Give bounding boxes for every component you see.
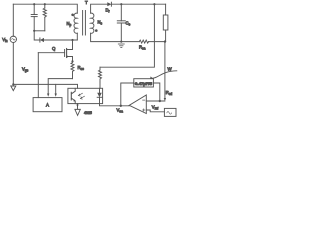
wire secondary bottom	[91, 33, 122, 41]
node output cap	[120, 3, 122, 5]
gate bar	[64, 50, 66, 57]
resistor Rsa	[121, 41, 139, 43]
wire load bottom	[165, 30, 167, 42]
resistor Rse sense	[71, 61, 74, 78]
node comp tap	[159, 100, 161, 102]
ground input return	[11, 86, 16, 91]
wire sense to controller	[48, 79, 72, 94]
capacitor Co	[120, 4, 122, 21]
svg-text:Vgs: Vgs	[22, 67, 29, 73]
opto LED	[99, 88, 101, 93]
ground secondary earth	[118, 43, 124, 45]
node snubber cap top	[33, 3, 35, 5]
transformer secondary Ns	[91, 13, 94, 33]
node snubber bottom	[33, 30, 35, 32]
wire secondary top	[91, 4, 108, 13]
light arrows	[78, 93, 82, 96]
resistor RL load box	[163, 15, 168, 30]
wire diode to drain node	[44, 39, 77, 41]
phototransistor	[70, 92, 72, 100]
wire left rail upper	[12, 4, 14, 36]
wire top primary rail	[13, 4, 77, 13]
source Vin	[10, 36, 16, 42]
svg-text:Dr: Dr	[106, 8, 111, 14]
wire output rail R1	[100, 4, 154, 67]
node output rail top	[153, 3, 155, 5]
node snubber res top	[44, 3, 46, 5]
node primary dot	[71, 14, 74, 17]
compensation box Z1	[134, 79, 154, 87]
wire LED cathode to Vea	[100, 104, 130, 106]
channel bar	[66, 49, 68, 58]
svg-text:Np: Np	[67, 21, 72, 27]
svg-text:Rse: Rse	[78, 65, 85, 71]
source arrow	[67, 55, 68, 57]
ground opto emitter	[75, 109, 80, 115]
node input return junction	[12, 83, 14, 85]
diode Dr	[107, 2, 111, 6]
wire comp to Vea riser	[121, 83, 134, 106]
source lead	[67, 57, 73, 62]
wire opto emitter ground	[77, 104, 79, 109]
wire snubber to diode	[34, 31, 40, 40]
optocoupler U2 box	[68, 88, 103, 103]
wire gate lead	[38, 52, 64, 54]
svg-text:A: A	[46, 103, 49, 108]
op-amp plus	[143, 109, 145, 111]
node secondary dot	[95, 29, 98, 32]
wire comp to inverting	[153, 83, 159, 101]
svg-text:Rsa: Rsa	[139, 45, 146, 51]
wire output top	[111, 3, 165, 5]
svg-text:Q: Q	[52, 46, 56, 51]
svg-text:4N25: 4N25	[84, 111, 92, 115]
wire primary common	[13, 84, 77, 88]
wiper W curve	[151, 71, 177, 79]
op-amp U1	[129, 95, 146, 114]
svg-text:Rsd: Rsd	[166, 90, 173, 96]
diode D snubber	[39, 38, 41, 42]
node secondary ground	[120, 41, 122, 43]
node Vea	[120, 105, 122, 107]
node load bottom	[164, 40, 166, 42]
wire left rail lower	[12, 43, 14, 85]
wire snubber bottom tie	[34, 30, 45, 32]
resistor Rb led bias	[99, 67, 101, 70]
op-amp minus	[143, 99, 145, 101]
svg-text:Co: Co	[126, 21, 131, 27]
controller box A	[33, 98, 62, 112]
svg-text:Vin: Vin	[2, 37, 8, 43]
arrow sense in	[47, 94, 49, 97]
wire gate drive vertical	[37, 53, 39, 98]
node source	[71, 60, 73, 62]
reference source box	[164, 108, 176, 116]
resistor Rsn snubber	[44, 4, 46, 8]
wire noninverting to Vref	[146, 110, 164, 112]
wire feedback to controller	[55, 84, 57, 93]
svg-text:Ns: Ns	[98, 20, 103, 26]
wire load top	[165, 4, 167, 15]
capacitor Csn snubber	[33, 4, 35, 14]
svg-text:T: T	[85, 0, 88, 5]
drain lead	[67, 40, 73, 50]
wire primary bottom	[76, 33, 78, 40]
svg-text:Vea: Vea	[117, 108, 124, 114]
svg-text:0.47μF/5: 0.47μF/5	[135, 82, 152, 86]
arrow divider tap	[164, 98, 166, 101]
arrow feedback in	[55, 94, 57, 97]
wire inverting input	[146, 100, 165, 102]
wire divider Rsd line	[164, 42, 166, 99]
node drain	[71, 39, 73, 41]
transformer core	[82, 11, 84, 36]
transformer T primary Np	[74, 13, 77, 33]
svg-text:Vref: Vref	[152, 105, 159, 111]
